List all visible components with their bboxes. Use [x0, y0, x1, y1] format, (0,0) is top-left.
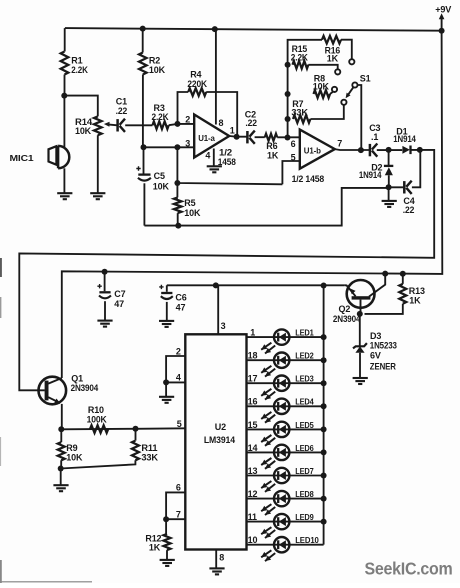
svg-text:33K: 33K [291, 107, 308, 117]
wire [277, 136, 300, 138]
capacitor C3 [369, 123, 380, 157]
wire R14 wiper [104, 122, 119, 127]
wire [206, 92, 237, 137]
ground (detector) [382, 201, 397, 207]
wire [169, 124, 195, 125]
LED LED4 [247, 397, 324, 414]
resistor R10 [87, 405, 109, 433]
wire regulated rail [167, 284, 344, 286]
wire bias line [177, 147, 282, 184]
wire U1-a pin 8 [215, 29, 217, 124]
svg-text:R9: R9 [66, 443, 77, 453]
svg-text:8: 8 [219, 118, 224, 128]
wire [60, 469, 62, 486]
LED LED3 [247, 374, 324, 391]
svg-text:33K: 33K [141, 452, 158, 462]
wire +9V top rail [65, 28, 442, 31]
pin 8 label (U2) [219, 552, 224, 562]
svg-text:7: 7 [337, 138, 342, 148]
ground (U2 pins 2,4) [159, 397, 174, 403]
node ground rail / R5 [175, 223, 181, 229]
LED5 emission arrows [261, 435, 275, 446]
svg-text:14: 14 [248, 443, 258, 453]
node U2 pin 7 / R12 [163, 516, 169, 522]
capacitor C5 [136, 147, 169, 225]
svg-text:R13: R13 [409, 286, 425, 296]
wire U1-a pin 4 [213, 149, 215, 167]
node Q1 emitter / R9 / R10 [58, 426, 64, 432]
svg-text:C5: C5 [154, 171, 165, 181]
svg-text:C6: C6 [175, 292, 186, 302]
switch contact (R16) [349, 59, 354, 64]
node U1-a output / R4 [234, 134, 240, 140]
node D2 anode / C4 / ground [386, 184, 392, 190]
svg-text:Q2: Q2 [339, 304, 351, 314]
pin 5 label (U2) [177, 419, 182, 429]
pin 16 label (U2) [248, 397, 258, 407]
svg-text:10K: 10K [153, 181, 170, 191]
pin 3 label (U2) [221, 321, 226, 331]
svg-text:8: 8 [219, 552, 224, 562]
wire [64, 96, 98, 117]
ground (C7) [97, 321, 112, 327]
pin 2 label (U1-a) [185, 115, 190, 125]
resistor R11 [132, 429, 159, 463]
svg-text:.1: .1 [371, 132, 378, 142]
svg-text:LED4: LED4 [295, 397, 314, 407]
switch contact (R15) [335, 69, 340, 74]
LED1 emission arrows [261, 343, 275, 354]
pin 5 label (U1-b) [291, 152, 296, 162]
switch contact (R8) [332, 87, 337, 92]
svg-text:2: 2 [185, 115, 190, 125]
wire [61, 460, 136, 468]
capacitor C6 [159, 285, 187, 321]
LED LED5 [247, 420, 324, 437]
svg-text:2.2K: 2.2K [291, 53, 309, 63]
svg-text:10K: 10K [313, 82, 330, 92]
wire feedback bus [288, 40, 322, 138]
svg-text:47: 47 [176, 303, 186, 313]
resistor R16 [322, 36, 341, 64]
node C7 / +9V [102, 269, 108, 275]
svg-text:C7: C7 [114, 289, 125, 299]
svg-text:LED7: LED7 [295, 466, 314, 476]
node bus / R8 [285, 91, 291, 97]
svg-text:1/2 1458: 1/2 1458 [292, 174, 325, 184]
svg-text:13: 13 [248, 466, 258, 476]
resistor R15 [291, 44, 309, 68]
node U1-b pin 6 [285, 135, 291, 141]
node LED anode bus [321, 426, 327, 432]
svg-text:LM3914: LM3914 [204, 435, 235, 445]
node LED anode bus [321, 519, 327, 525]
resistor R2 [139, 53, 166, 76]
resistor R7 [291, 99, 310, 123]
svg-text:1N914: 1N914 [393, 134, 416, 144]
svg-text:R2: R2 [149, 56, 160, 66]
svg-text:6V: 6V [370, 351, 381, 361]
capacitor C2 [245, 109, 257, 143]
svg-text:R11: R11 [141, 443, 157, 453]
switch S1 [346, 74, 371, 151]
IC U2 LM3914 [185, 334, 246, 549]
svg-text:U1-b: U1-b [304, 145, 321, 155]
svg-text:11: 11 [248, 512, 257, 522]
wire [341, 40, 352, 60]
node LED anode bus / rail [321, 283, 327, 289]
node LED anode bus [321, 496, 327, 502]
wire U2 pin 8 [215, 550, 217, 569]
node LED anode bus [321, 380, 327, 386]
pin 6 label (U2) [176, 483, 181, 493]
LED LED6 [247, 443, 324, 460]
LED LED10 [247, 535, 324, 552]
svg-text:1K: 1K [267, 150, 279, 160]
svg-text:1: 1 [250, 328, 255, 338]
wire feedback to R4 [178, 92, 189, 124]
svg-text:10K: 10K [66, 452, 83, 462]
node pin 3 / bias branch [174, 144, 180, 150]
svg-text:1: 1 [230, 126, 235, 136]
capacitor C4 [389, 150, 421, 215]
+9V supply terminal [435, 4, 452, 28]
svg-text:10: 10 [248, 535, 258, 545]
pin 18 label (U2) [248, 351, 258, 361]
svg-text:LED10: LED10 [295, 535, 319, 545]
svg-text:18: 18 [248, 351, 258, 361]
node LED anode bus [321, 334, 327, 340]
LED LED2 [247, 351, 324, 368]
svg-text:LED9: LED9 [295, 512, 314, 522]
svg-text:.22: .22 [403, 205, 415, 215]
svg-text:16: 16 [248, 397, 258, 407]
wire ground rail [144, 188, 388, 226]
svg-text:4: 4 [205, 151, 210, 161]
scan artifact bottom edge [0, 560, 92, 583]
wire [388, 187, 390, 201]
wire [63, 168, 65, 193]
svg-text:10K: 10K [184, 208, 201, 218]
node R9 / R11 / ground [58, 466, 64, 472]
svg-text:1K: 1K [327, 54, 339, 64]
transistor Q1 [39, 373, 99, 429]
pin 6 label (U1-b) [291, 139, 296, 149]
svg-text:10K: 10K [75, 126, 92, 136]
node output / D2 [386, 147, 392, 153]
wire U2 pin 6 [166, 492, 185, 519]
ground (R12) [160, 560, 175, 566]
svg-text:R10: R10 [88, 405, 104, 415]
wire R2 column [142, 29, 144, 148]
svg-text:.22: .22 [245, 118, 257, 128]
resistor R8 [313, 73, 330, 97]
wire [330, 92, 333, 95]
wire U2 pin 4 [166, 381, 185, 383]
LED9 emission arrows [261, 527, 275, 538]
wire [255, 136, 265, 138]
pin 1 label (U2) [250, 328, 255, 338]
svg-text:2: 2 [176, 346, 181, 356]
pin 10 label (U2) [248, 535, 258, 545]
node LED anode bus [321, 357, 327, 363]
svg-text:LED6: LED6 [295, 443, 314, 453]
node R2 top junction [140, 26, 146, 32]
wire [63, 96, 65, 148]
svg-text:6: 6 [176, 483, 181, 493]
pin 11 label (U2) [248, 512, 257, 522]
pin 13 label (U2) [248, 466, 258, 476]
wire [97, 135, 99, 193]
svg-text:R5: R5 [184, 198, 195, 208]
wire [125, 124, 152, 126]
resistor R13 [365, 274, 425, 314]
microphone MIC1 [10, 146, 70, 168]
wire U1-b pin 5 [282, 161, 299, 184]
zener diode D3 [353, 314, 397, 378]
wire LED anode bus [323, 286, 325, 545]
svg-text:2N3904: 2N3904 [333, 314, 361, 324]
svg-text:+9V: +9V [435, 4, 452, 14]
wire U2 pin 7 [166, 518, 185, 520]
resistor R5 [174, 197, 201, 217]
op-amp U1-a [194, 115, 236, 167]
wire U1-a pin 3 [144, 146, 195, 148]
svg-text:2.2K: 2.2K [152, 112, 170, 122]
node R10 / R11 [133, 426, 139, 432]
wire U2 pin 5 [61, 428, 185, 429]
node LED anode bus [321, 473, 327, 479]
svg-text:6: 6 [291, 139, 296, 149]
wire [165, 382, 167, 396]
wire U1-b output [335, 149, 420, 150]
node R1 / MIC1 / R14 [61, 93, 67, 99]
wire U1-a output [229, 135, 247, 138]
svg-text:MIC1: MIC1 [10, 153, 34, 163]
ground (R14) [90, 193, 105, 199]
resistor R1 [61, 52, 89, 76]
node +9V corner [439, 28, 445, 34]
svg-text:LED8: LED8 [295, 489, 314, 499]
node U2 pins 2,4 [163, 379, 169, 385]
switch contact (R7, lever end) [341, 100, 346, 105]
node S1 / output [358, 147, 364, 153]
ground (R9) [53, 485, 68, 491]
LED8 emission arrows [261, 504, 275, 515]
wire +9V distribution [62, 31, 443, 378]
node U1-a pin 8 junction [212, 26, 218, 32]
svg-text:10K: 10K [149, 65, 166, 75]
LED LED7 [247, 466, 324, 483]
LED2 emission arrows [261, 366, 275, 377]
svg-text:220K: 220K [187, 79, 207, 89]
pin 1 label (U1-a output) [230, 126, 235, 136]
wire [64, 28, 66, 51]
ground (C6) [159, 321, 174, 327]
svg-text:15: 15 [248, 420, 258, 430]
svg-text:U1-a: U1-a [198, 133, 215, 143]
svg-text:2.2K: 2.2K [71, 65, 88, 75]
wire U2 pin 3 [217, 285, 219, 334]
resistor R9 [58, 429, 83, 468]
wire U2 pin 2 [166, 356, 185, 382]
svg-text:3: 3 [221, 321, 226, 331]
node LED anode bus [321, 449, 327, 455]
LED LED1 [247, 328, 324, 345]
wire [176, 183, 178, 226]
pin 8 label (U1-a) [219, 118, 224, 128]
svg-text:100K: 100K [87, 415, 108, 425]
node bus / R15 [285, 62, 291, 68]
scan artifact left edge [0, 258, 2, 466]
node U1-a pin 2 [175, 121, 181, 127]
diode D1 [393, 126, 416, 154]
pin 15 label (U2) [248, 420, 258, 430]
wire detector output to Q1 base [19, 150, 434, 390]
capacitor C1 [116, 97, 128, 132]
node D1 / C4 [417, 147, 423, 153]
pin 7 label (U1-b) [337, 138, 342, 148]
LED3 emission arrows [261, 389, 275, 400]
pin 14 label (U2) [248, 443, 258, 453]
potentiometer R14 [75, 116, 102, 136]
svg-text:LED3: LED3 [295, 374, 314, 384]
resistor R6 [265, 134, 279, 161]
pin 12 label (U2) [248, 489, 258, 499]
svg-text:SeekIC.com: SeekIC.com [365, 559, 453, 579]
pin 3 label (U1-a) [185, 139, 190, 149]
SeekIC.com watermark [365, 559, 453, 579]
svg-text:3: 3 [185, 139, 190, 149]
node R13 top [400, 271, 406, 277]
svg-text:5: 5 [177, 419, 182, 429]
transistor Q2 [333, 274, 385, 324]
pin 4 label (U2) [176, 373, 181, 383]
ground (D3) [353, 378, 368, 384]
ground (MIC1) [57, 193, 72, 199]
wire [64, 75, 66, 96]
svg-text:D3: D3 [370, 331, 381, 341]
pin 4 label (U1-a) [205, 151, 210, 161]
pin 17 label (U2) [248, 374, 258, 384]
pin 7 label (U2) [176, 510, 181, 520]
svg-text:U2: U2 [215, 422, 226, 432]
svg-text:17: 17 [248, 374, 258, 384]
LED10 emission arrows [261, 550, 275, 561]
svg-text:7: 7 [176, 510, 181, 520]
svg-text:47: 47 [114, 299, 124, 309]
ground (U2 pin 8) [209, 568, 224, 574]
LED LED9 [247, 512, 324, 529]
node Q2 collector [382, 271, 388, 277]
resistor R12 [145, 519, 170, 560]
svg-text:1K: 1K [409, 295, 421, 305]
wire [308, 65, 337, 69]
resistor R3 [152, 103, 170, 129]
capacitor C7 [97, 272, 125, 321]
diode D2 [359, 150, 393, 187]
node bias / R5 [174, 180, 180, 186]
svg-text:ZENER: ZENER [370, 362, 397, 372]
node Q2 base / R13 / D3 [357, 311, 363, 317]
LED LED8 [247, 489, 324, 506]
svg-text:2N3904: 2N3904 [71, 383, 99, 393]
svg-text:12: 12 [248, 489, 258, 499]
svg-text:LED5: LED5 [295, 420, 314, 430]
op-amp U1-b [292, 130, 335, 184]
svg-text:S1: S1 [360, 74, 371, 84]
svg-text:1N914: 1N914 [359, 170, 382, 180]
pin 2 label (U2) [176, 346, 181, 356]
node pin 3 column [213, 282, 219, 288]
svg-text:4: 4 [176, 373, 181, 383]
svg-text:.22: .22 [116, 106, 128, 116]
svg-text:1K: 1K [149, 542, 161, 552]
svg-text:LED2: LED2 [295, 351, 314, 361]
node pin 3 / C5 [141, 144, 147, 150]
node bus / R7 [285, 116, 291, 122]
ground (U1-a pin 4) [207, 166, 222, 172]
resistor R4 [187, 69, 207, 96]
wire [310, 105, 343, 119]
LED4 emission arrows [261, 412, 275, 423]
svg-text:LED1: LED1 [295, 328, 314, 338]
svg-text:R4: R4 [190, 69, 201, 79]
svg-text:R1: R1 [71, 56, 82, 66]
node LED anode bus [321, 403, 327, 409]
svg-text:1N5233: 1N5233 [370, 341, 397, 351]
LED6 emission arrows [261, 458, 275, 469]
LED7 emission arrows [261, 481, 275, 492]
